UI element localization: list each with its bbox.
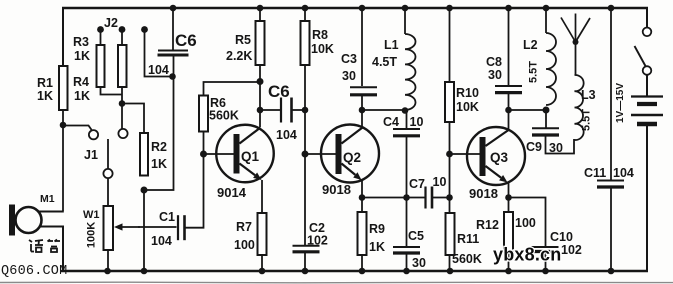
node R9 ground [359,268,366,275]
node C6b left junction [257,107,264,114]
node R2 bottom junction [141,187,148,194]
wire rail to R8 [304,8,306,21]
svg-text:104: 104 [151,234,172,248]
inductor L2 [546,33,556,105]
wire bottom ground rail [61,270,649,273]
svg-text:1K: 1K [151,157,167,171]
wire Q2 emitter down [361,180,363,212]
svg-text:C5: C5 [408,229,424,243]
transistor Q3 [467,127,525,185]
resistor R6 [199,96,208,132]
svg-text:1K: 1K [37,89,53,103]
svg-text:9014: 9014 [217,185,247,200]
resistor R4 [118,45,127,87]
resistor R11 [446,213,455,255]
transistor Q1 [216,125,274,183]
wire Q1 base lead [204,153,234,155]
svg-text:C6: C6 [268,82,290,101]
svg-text:C3: C3 [341,52,357,66]
svg-text:104: 104 [148,63,169,77]
svg-text:R7: R7 [236,220,252,234]
svg-text:1K: 1K [74,49,90,63]
wire Q3 emitter down [508,182,510,212]
svg-text:104: 104 [613,166,634,180]
node Q2 emitter junction [359,194,366,201]
switch S1 lever [635,46,647,67]
resistor R12 [504,212,513,252]
wire Q1 emitter to R7 [261,180,263,213]
wire rail down to C11 [610,8,612,180]
node J2 terminal 3 [141,26,148,33]
svg-text:J2: J2 [104,16,118,30]
resistor R1 [59,66,68,110]
node C5 ground [403,268,410,275]
node Q3 base tap [446,151,453,158]
node top rail C8 tap [505,5,512,12]
wire C11 to ground [610,188,612,272]
wire C5 top lead [406,198,408,247]
svg-text:L1: L1 [384,38,399,52]
svg-text:C7: C7 [409,177,425,191]
wire C6 bottom down to R2 bottom node [145,57,174,191]
wire microphone bottom lead [39,227,63,272]
scan artifact bottom edge [0,281,673,284]
svg-text:30: 30 [412,256,426,270]
wire L1 node to C4 [406,111,408,129]
svg-text:102: 102 [307,234,328,248]
svg-text:R3: R3 [73,35,89,49]
jack J1 lever wire [107,139,109,169]
svg-text:R10: R10 [456,86,479,100]
wire C6b left lead [260,109,280,111]
svg-text:102: 102 [561,243,582,257]
svg-text:104: 104 [276,128,297,142]
node R5 R6 junction [257,78,264,85]
node C6 J2 junction [169,73,176,80]
wire R7 to ground [261,255,263,271]
resistor R10 [445,82,454,122]
svg-text:100: 100 [515,216,536,230]
svg-text:4.5T: 4.5T [372,55,397,69]
wire Q3 collector up [508,110,510,130]
wire C1 to Q1 base [186,155,204,228]
node Q2 collector junction [359,107,366,114]
node top rail L1 tap [402,5,409,12]
wire Q2 base lead [305,153,336,155]
wire Q3 base lead [450,153,480,155]
svg-text:R5: R5 [235,33,251,47]
label microphone Chinese tong [48,240,61,253]
wire wiper to C1 [138,226,177,228]
wire C10 to ground [545,252,547,271]
capacitor C8 [495,85,522,87]
svg-text:ybx8.cn: ybx8.cn [493,245,561,265]
wire J2 terminal3 down and right to C6 node [145,30,171,77]
svg-text:Q2: Q2 [343,150,361,165]
wire rail to L2 [545,8,547,33]
node top rail R5 tap [257,5,264,12]
wire R6 bottom to base node [203,132,205,155]
wire collector node to L2 [509,109,547,111]
svg-text:560K: 560K [209,109,239,123]
microphone M1 [9,205,15,236]
svg-text:C4: C4 [383,115,399,129]
node R11 ground [447,268,454,275]
wire L2 node to C9 [545,110,547,128]
svg-text:R4: R4 [73,75,89,89]
wire top supply rail [62,7,648,9]
resistor R3 [97,45,105,87]
svg-text:R2: R2 [151,140,167,154]
svg-text:L2: L2 [523,38,538,52]
wire R1 junction down to microphone [62,126,64,211]
node C6b right junction [302,107,309,114]
svg-text:560K: 560K [452,252,482,266]
wire rail to C6 [172,8,174,50]
node C10 ground [542,268,549,275]
wire R9 to ground [361,255,363,271]
capacitor C4 [393,128,420,130]
svg-text:100: 100 [234,238,255,252]
wire rail to R5 [259,8,261,21]
wire C7 right lead [433,197,449,199]
node top rail L2 tap [543,5,550,12]
potentiometer W1 [104,206,114,250]
resistor R9 [358,212,367,255]
node L1 bottom junction [402,107,409,114]
svg-text:R1: R1 [37,76,53,90]
node top rail C3 tap [359,5,366,12]
wire R12 to ground [508,252,510,271]
node Q3 emitter junction [505,194,512,201]
transistor Q2 [321,125,379,183]
svg-text:C6: C6 [175,31,197,50]
node Q3 collector junction [505,107,512,114]
svg-text:C10: C10 [550,230,573,244]
jack J1 contact C [103,169,112,178]
capacitor C1 [177,215,179,240]
switch S1 top contact [643,28,652,37]
svg-text:C1: C1 [159,210,175,224]
svg-text:2.2K: 2.2K [226,49,252,63]
svg-text:100K: 100K [86,222,98,248]
capacitor C5 [393,246,420,248]
wire C4 down to emitter line [406,137,408,198]
capacitor C9 [532,127,559,129]
wire rail to C3 [361,8,363,86]
node top rail C11 tap [608,5,615,12]
node top rail C6 tap [170,5,177,12]
svg-text:R8: R8 [312,28,328,42]
svg-text:9018: 9018 [322,182,351,197]
svg-text:Q1: Q1 [241,149,260,164]
jack J1 contact A [89,130,98,139]
node R12 ground [505,268,512,275]
capacitor C6 first [158,50,188,52]
svg-text:C8: C8 [486,55,502,69]
svg-text:10: 10 [410,115,424,129]
svg-text:9018: 9018 [469,186,498,201]
wire switch to battery [646,75,648,96]
node R2 ground [141,268,148,275]
label microphone Chinese hua [29,240,43,252]
wire microphone top lead [39,211,64,213]
wire rail corner to switch [646,7,648,28]
wire junction to R2 top [123,104,144,134]
node top rail R10 tap [446,5,453,12]
wire battery to ground rail [646,126,648,272]
resistor R8 [301,21,310,65]
node W1 ground [104,268,111,275]
node Q1 base node [200,151,207,158]
svg-text:J1: J1 [84,148,98,162]
wire R6 top feed [204,82,259,96]
wire J2 terminal2 to R4 [121,30,123,45]
wire R5 to collector node [259,65,261,127]
svg-text:Q3: Q3 [490,150,509,165]
capacitor C7 [424,187,426,209]
svg-text:C9: C9 [526,140,542,154]
svg-text:1V—15V: 1V—15V [615,83,626,123]
node J2 terminal 2 [119,26,126,33]
node Q2 base node [302,151,309,158]
svg-text:L3: L3 [581,88,596,102]
wire R1 node to contact A [63,126,92,131]
wire R2 bottom to ground [143,190,145,271]
capacitor C2 [293,245,320,247]
inductor L3 [575,75,584,140]
svg-text:5.5T: 5.5T [581,109,593,131]
resistor R7 [258,213,267,255]
node C2 ground [302,268,309,275]
wire rail to C8 [508,8,510,85]
capacitor C6 interstage [280,98,282,123]
wire R4 bottom to node [121,87,123,101]
capacitor C11 [597,180,624,182]
wire C2 to ground [304,253,306,272]
wire J2 terminal1 to R3 [100,30,102,45]
svg-text:1K: 1K [369,240,385,254]
wire junction down to jack J1 [121,105,123,129]
wire C6b right lead [293,109,305,111]
svg-text:R12: R12 [476,218,499,232]
svg-text:W1: W1 [83,209,100,221]
svg-text:10K: 10K [456,100,479,114]
node C4 C5 C7 junction [403,194,410,201]
node R1 bottom junction [60,122,67,129]
potentiometer W1 wiper arrow [123,226,141,228]
switch S1 bottom contact [643,66,652,75]
svg-text:M1: M1 [40,193,55,205]
wire C5 to ground [406,254,408,272]
resistor R5 [256,21,265,65]
node R3 R4 junction [119,100,126,107]
svg-text:R9: R9 [369,222,385,236]
svg-text:C11: C11 [584,166,606,180]
svg-text:30: 30 [342,69,356,83]
inductor L1 [405,34,416,110]
resistor R2 [140,133,148,176]
capacitor C10 [532,246,559,248]
wire emitter line to C7 [362,197,425,199]
wire Q2 collector up [361,110,363,128]
svg-text:10: 10 [433,175,447,189]
node top rail R8 tap [302,5,309,12]
capacitor C3 [350,86,377,88]
svg-text:1K: 1K [74,89,90,103]
battery B1 [631,95,663,97]
node C7 R11 junction [446,194,453,201]
wire R11 to ground [449,255,451,271]
node C11 ground [608,268,615,275]
antenna [573,39,579,45]
wire rail to L1 [404,8,406,34]
svg-text:5.5T: 5.5T [528,61,540,83]
svg-text:30: 30 [488,68,502,82]
wire rail to R10 [449,8,451,82]
wire C9 bottom to L3 bottom [546,136,575,154]
wire collector node to L1 [362,109,405,111]
svg-text:Q606.COM: Q606.COM [1,264,67,279]
wire C3 to collector node [361,96,363,110]
svg-text:R11: R11 [457,232,479,246]
svg-text:10K: 10K [311,42,334,56]
node J2 terminal 1 [97,26,104,33]
node L2 bottom junction [543,107,550,114]
jack J1 contact B [118,129,127,138]
wire R10 down to R11 [449,122,451,213]
wire contact C to W1 [107,178,109,206]
wire R3 bottom jog [101,87,123,95]
wire emitter line to C10 [509,198,546,247]
wire C8 to collector node [508,94,510,111]
wire left rail down to R1 [62,7,64,67]
node R7 ground [259,268,266,275]
wire R8 down to C2 [304,65,306,245]
